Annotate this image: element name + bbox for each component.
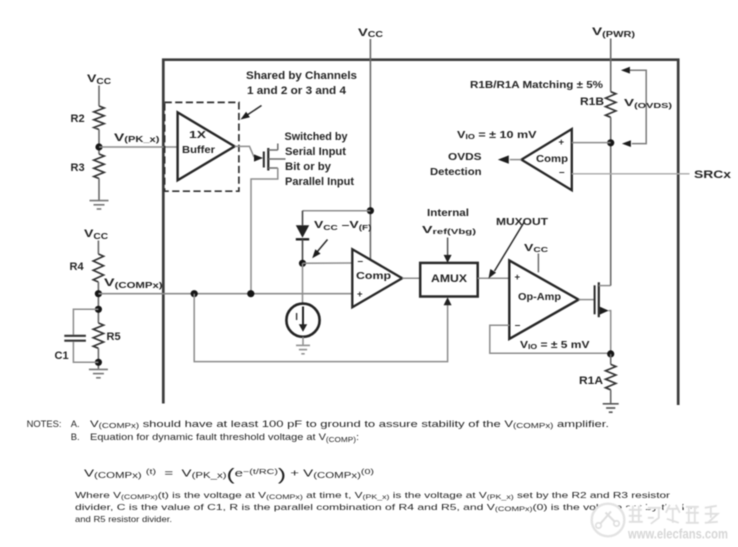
svg-text:www.elecfans.com: www.elecfans.com [627,527,728,542]
